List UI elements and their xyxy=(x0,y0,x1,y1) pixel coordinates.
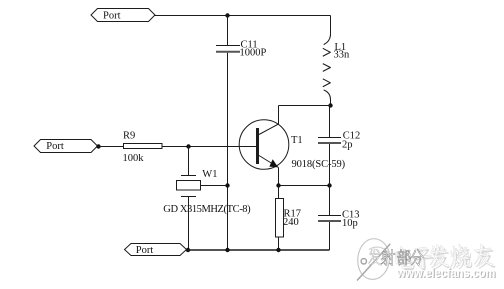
port P2 "Port" (middle left) xyxy=(34,140,98,153)
wire bottom net xyxy=(187,249,330,251)
svg-text:Port: Port xyxy=(136,245,154,256)
junction W1 case / C11 vertical xyxy=(225,183,229,187)
port P1 "Port" (top) xyxy=(91,9,155,22)
resistor R9 xyxy=(124,144,163,149)
svg-text:R9: R9 xyxy=(123,130,135,141)
crystal W1 xyxy=(177,147,228,251)
svg-text:33n: 33n xyxy=(334,50,351,61)
junction bottom net / C11 vertical xyxy=(225,248,229,252)
svg-text:T1: T1 xyxy=(291,135,303,146)
junction emitter / R17 xyxy=(276,183,280,187)
junction port P2 / base net xyxy=(96,144,100,148)
svg-text:Port: Port xyxy=(46,141,64,152)
port P3 "Port" (bottom) xyxy=(125,244,187,256)
watermark text 发射部分 xyxy=(369,249,424,266)
inductor L1 xyxy=(323,35,331,106)
svg-text:100k: 100k xyxy=(123,153,145,164)
wire top net: port to L1 corner xyxy=(154,15,331,17)
svg-text:1000P: 1000P xyxy=(240,48,267,59)
svg-text:W1: W1 xyxy=(202,169,217,180)
svg-text:2p: 2p xyxy=(342,139,353,150)
capacitor C13 xyxy=(318,186,341,251)
svg-text:9018(SC-59): 9018(SC-59) xyxy=(292,159,346,170)
wire emitter net: T1 to C12/C13 xyxy=(279,185,330,187)
capacitor C11 xyxy=(216,16,240,52)
svg-text:240: 240 xyxy=(283,217,299,228)
capacitor C12 xyxy=(318,106,341,186)
junction top net / C11 xyxy=(225,13,229,17)
svg-text:GD X315MHZ(TC-8): GD X315MHZ(TC-8) xyxy=(163,204,251,215)
wire collector net xyxy=(279,105,331,107)
wire C11 bottom vertical down to bottom net xyxy=(227,53,229,250)
junction bottom net / R17 xyxy=(276,248,280,252)
svg-text:Port: Port xyxy=(103,10,121,21)
svg-text:www.elecfans.com: www.elecfans.com xyxy=(396,266,495,280)
junction port P3 / bottom net xyxy=(186,248,190,252)
junction L1 / collector / C12 xyxy=(328,103,332,107)
resistor R17 xyxy=(276,186,284,251)
wire top net: corner down to L1 xyxy=(330,16,332,37)
svg-text:10p: 10p xyxy=(342,218,358,229)
junction C12 / C13 xyxy=(327,183,331,187)
wire base net: R9 to T1 base xyxy=(162,146,256,148)
transistor T1 (NPN) xyxy=(239,106,289,186)
watermark text 电子发烧友 xyxy=(394,242,495,273)
watermark leaf logo xyxy=(357,239,390,281)
junction base net / W1 xyxy=(186,144,190,148)
wire base net: port to R9 xyxy=(99,146,125,148)
